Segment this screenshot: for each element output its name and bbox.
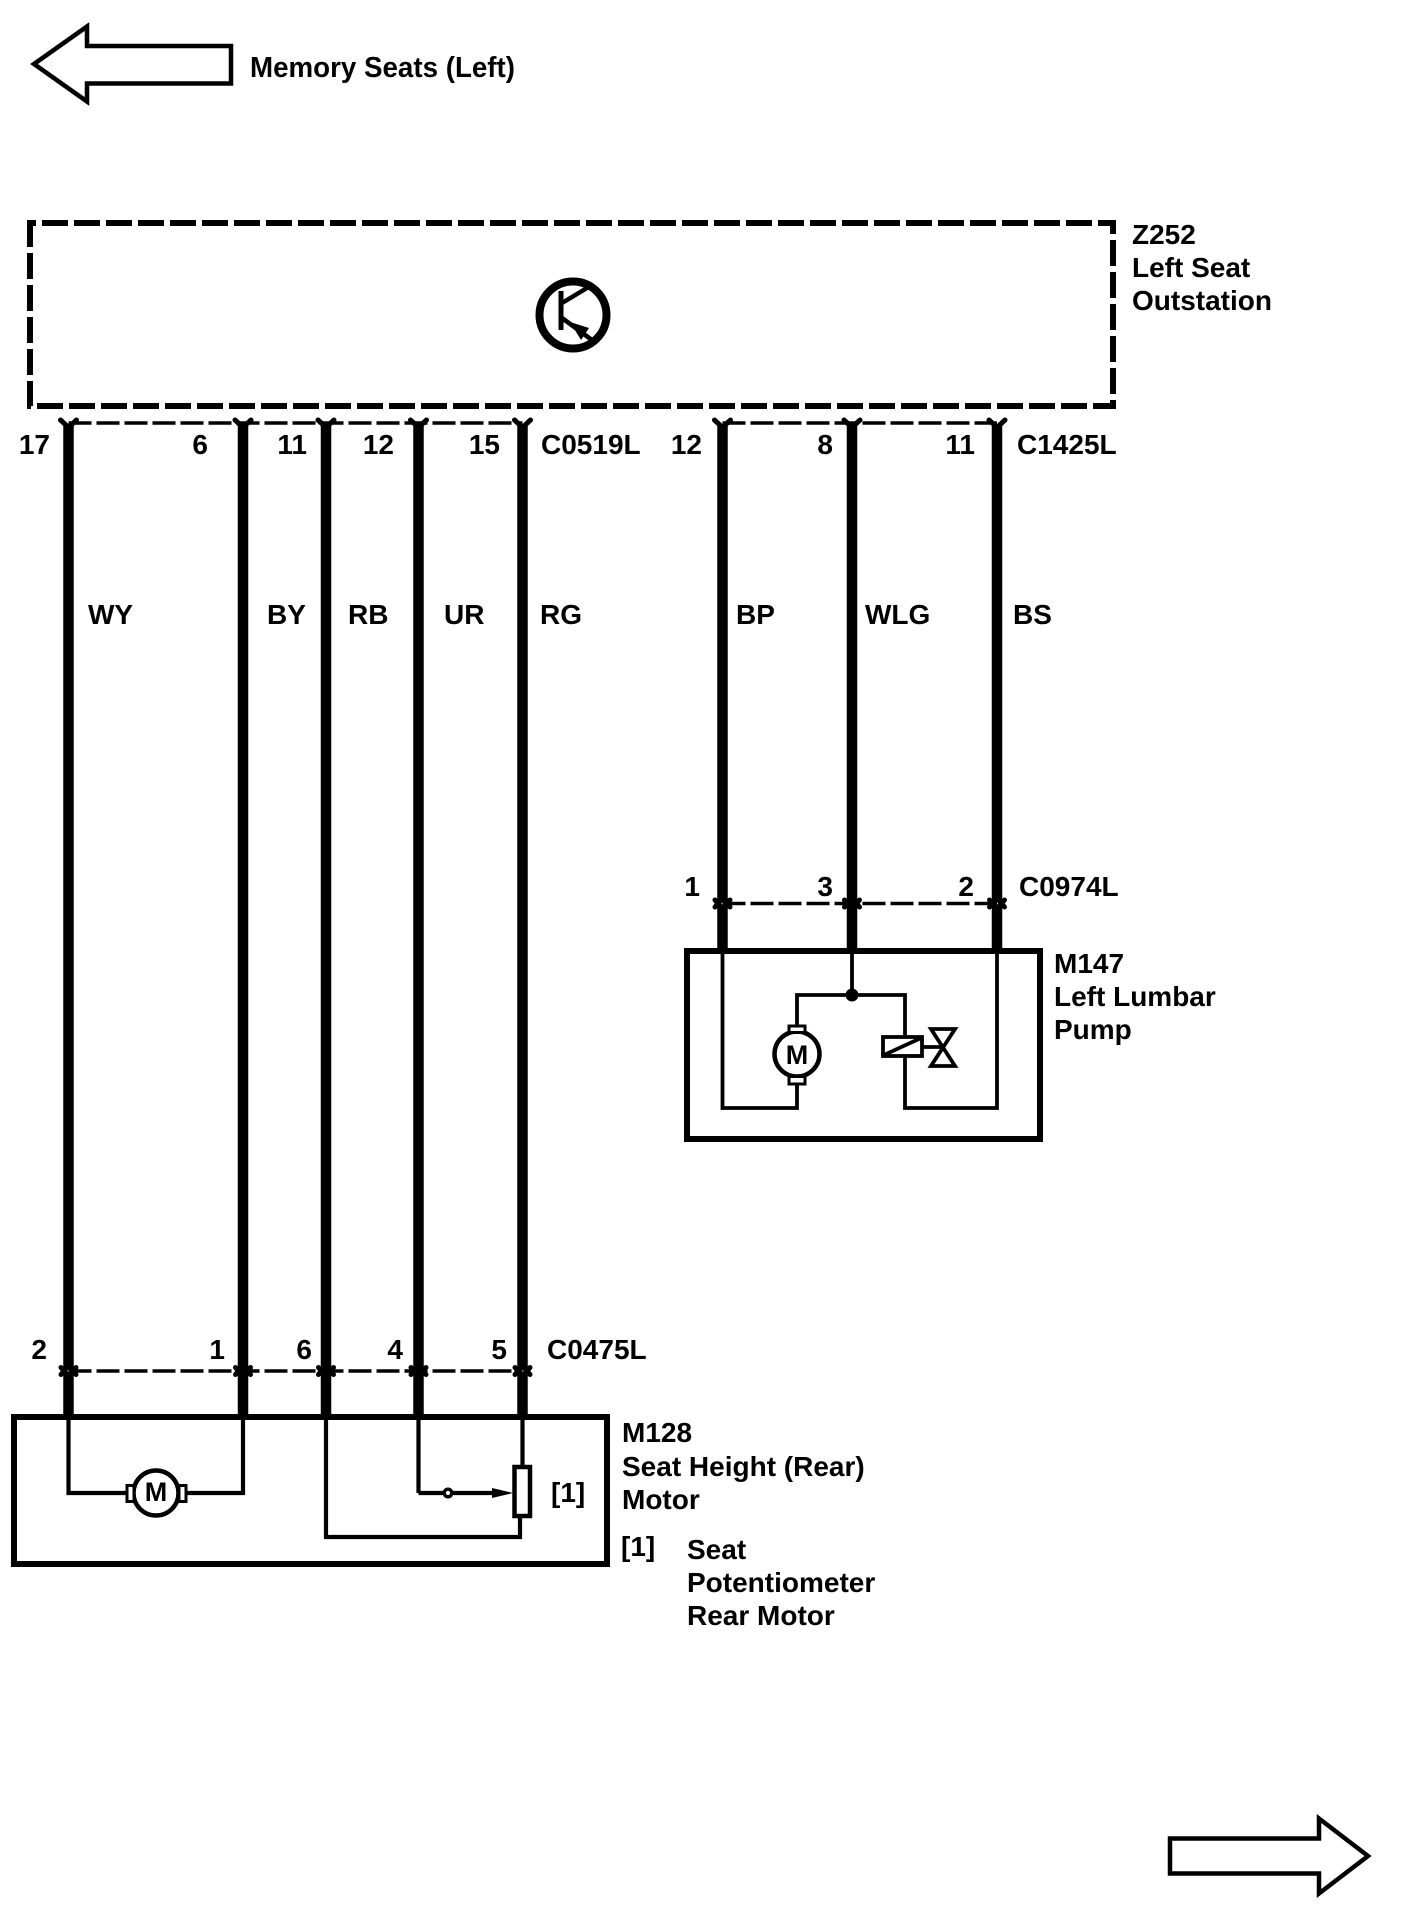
wire WLG lower stub into M147 <box>847 906 858 954</box>
connector C0519L pin 11 fork <box>318 420 334 428</box>
wire BY (pin6 to pin1) <box>238 425 249 1369</box>
M147 internal wire junction to solenoid <box>852 995 905 1038</box>
M128 internal wire from pin 2 to motor left terminal <box>69 1420 131 1493</box>
svg-text:C0475L: C0475L <box>547 1334 647 1365</box>
M147 internal junction node <box>846 989 859 1002</box>
wire BS (pin11 to pin2) <box>992 425 1003 901</box>
connector C0475L dashed line <box>69 1369 523 1373</box>
svg-text:Seat Height (Rear): Seat Height (Rear) <box>622 1451 865 1482</box>
connector C0519L pin 17 fork <box>61 420 77 428</box>
svg-text:17: 17 <box>19 429 50 460</box>
valve symbol of M147 <box>922 1029 955 1066</box>
module Z252 dashed box <box>30 223 1113 406</box>
connector C0974L pin 3 joint <box>845 899 860 909</box>
connector C0519L pin 12 fork <box>411 420 427 428</box>
wire BP lower stub into M147 <box>717 906 728 954</box>
svg-text:Memory Seats (Left): Memory Seats (Left) <box>250 52 515 84</box>
svg-text:Seat: Seat <box>687 1534 746 1565</box>
connector C0974L pin 2 joint <box>990 899 1005 909</box>
svg-text:6: 6 <box>192 429 208 460</box>
page link arrow (top-left, pointing left) <box>34 27 231 102</box>
wire WY lower stub into M128 <box>63 1374 74 1421</box>
svg-text:Left Seat: Left Seat <box>1132 252 1250 283</box>
wire UR lower stub into M128 <box>413 1374 424 1421</box>
svg-text:5: 5 <box>491 1334 507 1365</box>
page link arrow (bottom-right, pointing right) <box>1170 1819 1368 1894</box>
svg-text:Potentiometer: Potentiometer <box>687 1567 875 1598</box>
svg-text:4: 4 <box>387 1334 403 1365</box>
svg-text:M147: M147 <box>1054 948 1124 979</box>
svg-text:M128: M128 <box>622 1417 692 1448</box>
connector C0519L pin 15 fork <box>515 420 531 428</box>
svg-text:C0974L: C0974L <box>1019 871 1119 902</box>
component M128 Seat Height (Rear) Motor box <box>14 1417 607 1564</box>
svg-text:C1425L: C1425L <box>1017 429 1117 460</box>
M147 internal wire from pin 3 to junction <box>850 954 854 995</box>
wire WY (pin17 to pin2) <box>63 425 74 1369</box>
wire RG (pin15 to pin5) <box>517 425 528 1369</box>
M147 internal wire from pin 2 to solenoid <box>905 954 997 1108</box>
svg-text:2: 2 <box>31 1334 47 1365</box>
solenoid coil L1 of M147 <box>883 1037 922 1056</box>
svg-text:[1]: [1] <box>621 1531 655 1562</box>
wire BP (pin12 to pin1) <box>717 425 728 901</box>
connector C1425L pin 11 fork <box>989 420 1005 428</box>
connector C0475L pin 4 joint <box>411 1366 426 1376</box>
wire RB (pin11 to pin6) <box>321 425 332 1369</box>
svg-text:M: M <box>786 1040 809 1070</box>
svg-text:8: 8 <box>817 429 833 460</box>
svg-text:Pump: Pump <box>1054 1014 1132 1045</box>
svg-text:1: 1 <box>684 871 700 902</box>
svg-text:3: 3 <box>817 871 833 902</box>
svg-text:UR: UR <box>444 599 484 630</box>
wire WLG (pin8 to pin3) <box>847 425 858 901</box>
svg-text:[1]: [1] <box>551 1477 585 1508</box>
transistor symbol U1 inside Z252 <box>540 282 607 349</box>
connector C1425L pin 12 fork <box>715 420 731 428</box>
svg-text:Outstation: Outstation <box>1132 285 1272 316</box>
svg-text:BY: BY <box>267 599 306 630</box>
svg-text:M: M <box>145 1477 168 1507</box>
svg-text:Motor: Motor <box>622 1484 700 1515</box>
svg-text:RB: RB <box>348 599 388 630</box>
svg-text:WLG: WLG <box>865 599 930 630</box>
svg-text:BP: BP <box>736 599 775 630</box>
wire RB lower stub into M128 <box>321 1374 332 1421</box>
wiper arrow <box>452 1491 498 1495</box>
svg-text:12: 12 <box>363 429 394 460</box>
M128 internal wire from pin 5 to potentiometer top <box>520 1420 524 1467</box>
wire BY lower stub into M128 <box>238 1374 249 1421</box>
connector C1425L dashed line <box>723 421 998 425</box>
svg-text:11: 11 <box>277 429 307 460</box>
svg-text:RG: RG <box>540 599 582 630</box>
M128 internal wire from pin 6 to potentiometer bottom <box>326 1420 520 1537</box>
M128 internal wire from motor right terminal to pin 1 <box>182 1420 243 1493</box>
svg-text:Z252: Z252 <box>1132 219 1196 250</box>
svg-text:15: 15 <box>469 429 500 460</box>
component M147 Left Lumbar Pump box <box>687 951 1040 1139</box>
potentiometer [1] <box>515 1467 531 1516</box>
svg-text:11: 11 <box>945 429 975 460</box>
wiper contact circle <box>444 1489 452 1497</box>
svg-text:Rear Motor: Rear Motor <box>687 1600 835 1631</box>
connector C0974L dashed line <box>723 902 998 906</box>
connector C0519L pin 6 fork <box>235 420 251 428</box>
M128 internal wire from pin 4 to wiper <box>416 1420 420 1493</box>
connector C0475L pin 1 joint <box>236 1366 251 1376</box>
connector C1425L pin 8 fork <box>844 420 860 428</box>
M147 internal wire junction to motor positive <box>797 995 852 1027</box>
connector C0519L dashed line <box>69 421 523 425</box>
motor M128 symbol <box>127 1471 186 1516</box>
motor M147 symbol <box>775 1026 820 1084</box>
svg-text:2: 2 <box>958 871 974 902</box>
svg-text:BS: BS <box>1013 599 1052 630</box>
connector C0475L pin 2 joint <box>61 1366 76 1376</box>
connector C0475L pin 5 joint <box>515 1366 530 1376</box>
svg-text:1: 1 <box>209 1334 225 1365</box>
svg-text:C0519L: C0519L <box>541 429 641 460</box>
svg-text:12: 12 <box>671 429 702 460</box>
connector C0974L pin 1 joint <box>715 899 730 909</box>
wire RG lower stub into M128 <box>517 1374 528 1421</box>
svg-text:WY: WY <box>88 599 133 630</box>
svg-text:6: 6 <box>296 1334 312 1365</box>
wire BS lower stub into M147 <box>992 906 1003 954</box>
M147 internal wire from pin 1 to motor negative <box>723 954 798 1108</box>
connector C0475L pin 6 joint <box>319 1366 334 1376</box>
svg-text:Left Lumbar: Left Lumbar <box>1054 981 1216 1012</box>
wire UR (pin12 to pin4) <box>413 425 424 1369</box>
